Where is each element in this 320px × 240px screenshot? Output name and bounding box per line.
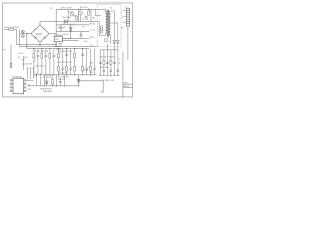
wire primary bottom [99, 22, 105, 36]
capacitor C30 [93, 49, 96, 75]
wire out col2 [103, 50, 105, 76]
wire primary top [105, 9, 107, 12]
wire drop d [63, 75, 65, 86]
wire AC line L [16, 29, 18, 44]
resistor R3 [88, 11, 90, 15]
wire U1 drain [62, 37, 70, 39]
node bus junction1 [33, 48, 34, 49]
wire out col3 [106, 44, 108, 76]
svg-text:D1: D1 [50, 8, 52, 10]
resistor R19 [74, 53, 76, 58]
resistor R17 [74, 49, 76, 75]
wire HV spine [55, 9, 57, 46]
wire clamp drop2 [90, 9, 92, 21]
wire secondary bottom [110, 35, 112, 44]
svg-text:1k 100p 4u7: 1k 100p 4u7 [58, 72, 68, 74]
node on top rail [88, 9, 90, 11]
capacitor C20 [59, 78, 62, 86]
wire bus1 [17, 44, 57, 46]
svg-text:SHT 1: SHT 1 [124, 83, 129, 85]
wire U1 bypass [62, 40, 78, 42]
wire out col6 [117, 43, 119, 76]
wire bridge bottom stub [39, 42, 41, 46]
optocoupler U3 [12, 77, 24, 94]
pin 5 [24, 80, 34, 81]
wire out col5 [113, 43, 115, 76]
node bus3 [64, 85, 65, 86]
svg-text:3: 3 [121, 18, 122, 20]
svg-text:D6: D6 [82, 27, 84, 29]
wire bus left tick [28, 84, 30, 86]
node bus end [78, 85, 79, 86]
pin tick col1 [99, 75, 102, 77]
wire mid rail 1 [56, 24, 89, 26]
svg-text:V+: V+ [119, 59, 121, 61]
rectifier D10 [113, 41, 116, 44]
pin 8 [24, 90, 26, 91]
svg-text:C2 10u: C2 10u [18, 53, 24, 55]
svg-text:C17 1u: C17 1u [82, 70, 88, 72]
node mbus2 [66, 74, 67, 75]
wire gate link [95, 15, 101, 17]
wire drop e [43, 75, 45, 86]
resistor R14 [58, 53, 60, 58]
node bus2 [52, 85, 53, 86]
capacitor C18 [85, 49, 88, 75]
node mbus3 [74, 74, 75, 75]
pin tick col5 [113, 75, 116, 77]
capacitor C19 [81, 54, 84, 55]
capacitor C14 [53, 49, 56, 75]
svg-text:DB107: DB107 [36, 34, 44, 36]
wire secondary tap1 [111, 11, 115, 40]
pin 4 [10, 90, 13, 91]
node bus junction3 [49, 48, 50, 49]
capacitor C22 [99, 62, 101, 63]
wire cluster drop5 [94, 9, 96, 15]
transformer primary winding [106, 11, 107, 33]
wire secondary ground run [79, 81, 104, 92]
svg-text:R3 C4 D2: R3 C4 D2 [80, 7, 88, 9]
diode D7 [45, 78, 48, 86]
node bus2 j1 [26, 46, 27, 47]
wire rail link [70, 25, 72, 39]
svg-text:R20 D8 C19: R20 D8 C19 [45, 75, 55, 77]
pin tick col3 [106, 75, 109, 77]
resistor R25 [103, 60, 105, 64]
varistor RV2 [21, 34, 24, 37]
wire snubber rail [40, 21, 99, 23]
svg-text:C10: C10 [84, 41, 87, 43]
svg-text:R14 C15 R19 C19: R14 C15 R19 C19 [58, 51, 73, 53]
svg-text:1: 1 [121, 12, 122, 14]
node on top rail [80, 9, 81, 10]
wire J1 down [127, 26, 129, 60]
svg-text:R7 1M: R7 1M [83, 19, 89, 21]
transistor Q1 [79, 11, 83, 15]
wire sense [23, 56, 25, 70]
transformer bias winding [100, 26, 102, 33]
wire to bridge [20, 33, 31, 35]
capacitor C24 [113, 62, 115, 63]
node on top rail [78, 9, 79, 10]
pin 1 [10, 80, 13, 81]
wire bus3 [27, 48, 90, 50]
bridge rectifier DB1 [31, 25, 49, 42]
wire drop c [55, 75, 57, 86]
wire mid bus [34, 74, 97, 76]
svg-text:C22 R25 C23 R26: C22 R25 C23 R26 [100, 57, 115, 59]
svg-text:220u 470u: 220u 470u [100, 67, 109, 69]
node bus junction5 [66, 48, 67, 49]
title block [123, 52, 133, 97]
svg-text:2n2: 2n2 [74, 15, 77, 17]
node mbus1 [58, 74, 59, 75]
wire cluster drop4 [80, 15, 82, 22]
svg-text:R9 10: R9 10 [90, 23, 95, 25]
svg-text:REV A: REV A [124, 85, 130, 88]
capacitor C4 [60, 25, 63, 32]
wire bridge output [49, 33, 56, 35]
zener VR2 [77, 75, 80, 86]
capacitor C1 bulk [10, 45, 13, 67]
capacitor C16 [61, 49, 64, 75]
wire J1 pin5 [123, 21, 127, 23]
wire out col4 [110, 50, 112, 76]
svg-text:10k: 10k [24, 57, 27, 59]
IC U1 [54, 35, 63, 46]
node zener tap [78, 80, 79, 81]
capacitor C17 [69, 49, 72, 75]
node drop c [56, 85, 57, 86]
node rail1 [70, 24, 71, 25]
wire J1 pin1 [123, 9, 127, 11]
resistor R2 [75, 16, 77, 20]
wire mid rail 2 [56, 31, 89, 33]
bridge diode glyph BR [44, 36, 46, 38]
svg-text:R21: R21 [28, 89, 31, 91]
capacitor C15 [65, 54, 68, 55]
svg-text:S S S: S S S [56, 49, 61, 51]
wire J1 pin3 [123, 15, 127, 17]
wire drop a [35, 73, 37, 86]
wire fb drop1 [27, 68, 29, 79]
resistor R13 [49, 49, 51, 75]
resistor R15 [58, 49, 60, 75]
capacitor C8 inline [85, 16, 87, 17]
wire top rail [56, 8, 105, 10]
svg-text:D8: D8 [121, 27, 123, 29]
node mbus5 [90, 74, 91, 75]
wire out col1 [99, 50, 101, 76]
wire mid rail 3 [56, 37, 89, 39]
capacitor C23 [106, 62, 108, 63]
resistor R11 [33, 49, 35, 75]
ground [10, 66, 13, 68]
pin 6 [24, 83, 26, 84]
wire bus2 [20, 46, 98, 48]
snubber circle [104, 38, 108, 42]
svg-text:R15 C16 R16 C17: R15 C16 R16 C17 [58, 62, 73, 64]
transformer core [107, 10, 108, 37]
border zone tick [3, 48, 5, 50]
svg-text:C13: C13 [34, 76, 37, 78]
capacitor C5 [80, 32, 83, 39]
capacitor C26 [103, 70, 105, 71]
wire AC line N [19, 29, 21, 46]
transformer secondary winding [109, 11, 110, 35]
svg-text:R30: R30 [90, 62, 93, 64]
node mbus4 [82, 74, 83, 75]
junction node [26, 33, 27, 34]
capacitor C27 [110, 70, 112, 71]
svg-text:10n 2k2 470: 10n 2k2 470 [22, 63, 32, 65]
wire collect [100, 49, 118, 51]
pin 7 [24, 87, 26, 88]
svg-text:R3: R3 [93, 18, 95, 20]
svg-text:C7 1n: C7 1n [90, 30, 95, 32]
node rail2 [70, 31, 71, 32]
node bus junction7 [82, 48, 83, 49]
capacitor C25 [117, 70, 119, 71]
node bus junction2 [41, 48, 42, 49]
svg-text:100n 47k 1n: 100n 47k 1n [35, 66, 45, 68]
svg-text:4k7 100n 22k: 4k7 100n 22k [58, 76, 69, 78]
node bus junction6 [74, 48, 75, 49]
connector J1 [126, 8, 129, 26]
rectifier D11 [116, 41, 119, 44]
varistor RV1 [21, 30, 24, 33]
svg-text:C1: C1 [3, 49, 5, 51]
wire fb drop3 [33, 68, 35, 79]
svg-text:4n7: 4n7 [90, 72, 93, 74]
pin tick col6 [117, 75, 120, 77]
resistor R16 [66, 49, 68, 75]
svg-text:R10: R10 [58, 27, 61, 29]
wire junction drop [26, 34, 28, 49]
wire clamp drop [78, 9, 80, 21]
resistor R26 [110, 60, 112, 64]
wire bottom bus [29, 85, 79, 87]
svg-text:R5 C6 D2: R5 C6 D2 [62, 17, 70, 19]
svg-text:R11 C12 R12 C13: R11 C12 R12 C13 [33, 51, 48, 53]
resistor R12 [41, 49, 43, 75]
resistor R18 [82, 49, 84, 75]
wire drop b [39, 73, 41, 86]
svg-text:C9: C9 [90, 45, 92, 47]
resistor R30 [90, 49, 92, 75]
svg-text:R8 2k: R8 2k [90, 37, 95, 39]
pin 2 [10, 83, 13, 84]
diode D5 [64, 20, 67, 23]
node rail3 [70, 38, 71, 39]
ground tick [101, 91, 104, 93]
svg-text:R4: R4 [18, 57, 20, 59]
transformer isolation box [98, 5, 121, 47]
wire cluster drop3 [67, 9, 69, 21]
pin 3 [10, 87, 13, 88]
diode D3 [69, 27, 72, 30]
wire bridge top stub [39, 22, 41, 25]
pin tick col4 [110, 75, 113, 77]
resistor R22 [51, 78, 53, 86]
svg-text:C9: C9 [33, 61, 35, 63]
fuse F1 [3, 26, 19, 30]
pin tick col2 [103, 75, 106, 77]
capacitor C13 [45, 49, 48, 75]
svg-text:C2 R1 D1 VR1: C2 R1 D1 VR1 [60, 7, 72, 9]
capacitor C12 [37, 49, 40, 75]
node bus1 j1 [39, 44, 40, 45]
node bus junction4 [58, 48, 59, 49]
wire fb drop2 [30, 68, 32, 79]
node bus1 [44, 85, 45, 86]
svg-text:J1: J1 [125, 6, 127, 8]
wire secondary tap2 [111, 23, 118, 40]
svg-text:PWR-GND: PWR-GND [43, 91, 52, 93]
bridge diode glyph BL [34, 36, 36, 38]
transistor Q2 [70, 12, 74, 16]
svg-text:C11: C11 [63, 34, 66, 36]
svg-text:R6: R6 [63, 27, 65, 29]
svg-text:RT1: RT1 [22, 60, 25, 62]
